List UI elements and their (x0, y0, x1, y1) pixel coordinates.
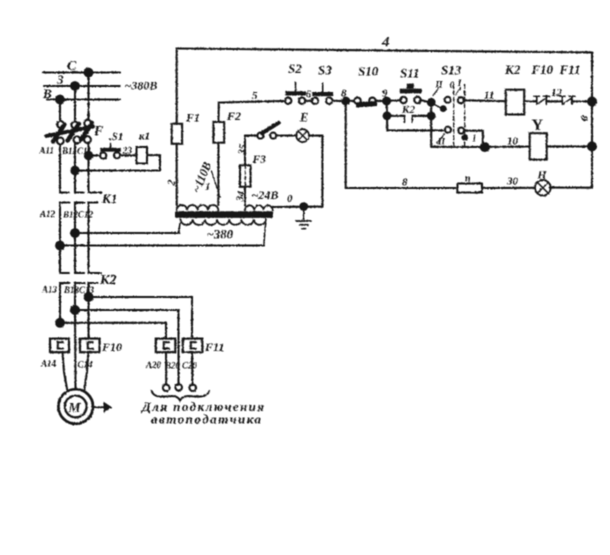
signal lamp E (296, 129, 309, 142)
svg-text:К2: К2 (401, 104, 415, 116)
node S13 row1 left (427, 98, 436, 107)
selector switch S13 vertical link (430, 102, 432, 147)
circuit breaker F pole B bottom contact (74, 136, 81, 143)
pushbutton S1 left terminal (100, 153, 106, 159)
wire 110V winding left lead up to F1 (176, 144, 178, 205)
node A feeder branch (55, 318, 65, 328)
svg-text:34: 34 (235, 190, 248, 203)
svg-text:10: 10 (507, 136, 519, 148)
wire A drop to breaker (59, 100, 61, 122)
node K1 return on B (70, 166, 79, 175)
node C to S1 branch (84, 151, 93, 160)
svg-text:Е: Е (299, 111, 308, 125)
svg-text:.S1: .S1 (109, 131, 123, 143)
knife switch left terminal (257, 133, 263, 139)
svg-text:9: 9 (382, 88, 388, 100)
wire K2 coil to F10 contact (524, 100, 536, 102)
thermal contact F10 (536, 97, 538, 105)
svg-text:~380В: ~380В (125, 79, 158, 93)
leader tick under I (456, 88, 461, 96)
leader tick under P (433, 87, 440, 96)
wire node C to S1 (89, 154, 101, 156)
brace under terminals (152, 391, 210, 401)
wire F11 C to terminal (191, 352, 194, 384)
phase rail B (44, 85, 120, 87)
wire 24V right lead to node 0 (273, 206, 304, 208)
svg-text:Y: Y (532, 117, 544, 134)
svg-text:А20: А20 (145, 360, 162, 370)
svg-text:Н: Н (537, 170, 548, 182)
node 24V zero terminal (299, 202, 308, 211)
transformer 380V primary winding (181, 219, 266, 225)
wire C down to F10 (87, 297, 89, 338)
svg-text:В12: В12 (62, 210, 79, 220)
node right bus lower (587, 141, 597, 151)
svg-text:0: 0 (450, 80, 455, 90)
circuit breaker F pole A bottom contact (57, 138, 64, 145)
node B feeder branch (70, 305, 80, 315)
wire S10 to node 9 (376, 100, 384, 102)
pushbutton S2 left terminal (285, 98, 291, 104)
node transformer feed on B (70, 228, 80, 238)
wire A breaker to K1 (59, 144, 61, 192)
circuit breaker F pole C top contact (84, 120, 91, 127)
svg-text:F10: F10 (101, 340, 122, 354)
wire 24V left lead up to F3 (244, 187, 246, 206)
wire C between K1 and K2 (87, 233, 89, 273)
wire B node to transformer primary left (75, 232, 179, 234)
motor M outer circle (58, 389, 93, 424)
svg-text:I: I (457, 78, 462, 88)
circuit breaker F pole A top contact (57, 121, 64, 128)
svg-text:А11: А11 (39, 146, 55, 156)
circuit breaker F blade pole C (81, 123, 92, 140)
contactor coil K2 (506, 90, 524, 115)
transformer 110V secondary winding (177, 205, 219, 210)
feeder terminal B (175, 384, 182, 391)
circuit breaker F pole C bottom contact (84, 136, 91, 143)
svg-text:S2: S2 (288, 61, 302, 76)
svg-text:в: в (575, 113, 591, 123)
pushbutton S1 right terminal (114, 152, 120, 158)
pushbutton S3 stem (322, 83, 324, 92)
S13 row2 moving contact (461, 134, 468, 141)
svg-text:А13: А13 (41, 285, 58, 295)
electromagnet coil Y (530, 133, 547, 159)
signal lamp H (535, 180, 551, 196)
wire primary right lead (264, 223, 266, 246)
wire F10 C to motor (84, 352, 88, 391)
svg-text:0: 0 (287, 193, 293, 205)
S13 row2 fixed contact b (458, 128, 464, 134)
wire C branch to F11 (89, 297, 193, 338)
thermal relay F11 heater pole C (183, 339, 203, 353)
thermal relay F10 heater pole C (80, 339, 100, 353)
wire S13 row2 to node 10 (464, 131, 483, 147)
wire A between nodes (59, 233, 61, 273)
node K2 branch left (383, 111, 392, 120)
wire node 8 to S10 (346, 100, 355, 102)
wire F3 up to switch, label 35 (rotated) (244, 136, 246, 166)
wire switch to lamp E (276, 135, 296, 137)
svg-text:В: В (42, 86, 52, 101)
svg-text:S10: S10 (358, 64, 379, 79)
wire Y coil to right bus (547, 145, 592, 147)
wire between thermal contacts, label 12 (546, 100, 562, 102)
wire B breaker to K1 (74, 143, 76, 192)
wire F11 contact to right bus (572, 100, 592, 102)
pushbutton S11 left terminal (400, 97, 406, 103)
node 8 (341, 97, 350, 106)
svg-text:4: 4 (381, 35, 390, 51)
S13 row1 fixed contact b (458, 97, 464, 103)
svg-text:~24В: ~24В (252, 188, 279, 202)
wire to knife switch (245, 135, 258, 137)
svg-text:8: 8 (341, 88, 347, 100)
node tap C (84, 68, 94, 78)
wire A branch to F11 (60, 323, 166, 338)
svg-text:к1: к1 (139, 131, 150, 143)
svg-text:К2: К2 (504, 62, 521, 77)
svg-text:В13: В13 (63, 285, 80, 295)
selector switch S13 position guide I (453, 85, 455, 147)
pushbutton S11 bridge bar (400, 89, 422, 94)
transformer core bar (175, 211, 273, 218)
contactor K2 main contact pole A (60, 272, 69, 274)
svg-text:I: I (472, 134, 477, 144)
pushbutton S3 bridge bar (312, 92, 333, 96)
fuse F2 (213, 122, 224, 143)
relay coil K1 (137, 147, 148, 164)
ground symbol (303, 207, 305, 221)
wire 110V winding right lead up to F2 (217, 143, 219, 205)
wire B between nodes (74, 233, 76, 273)
svg-text:F: F (93, 124, 104, 139)
svg-text:А14: А14 (40, 359, 57, 369)
svg-text:C: C (67, 59, 77, 74)
wire F11 A to terminal (165, 352, 167, 384)
wire 10 from node to Y coil (485, 145, 530, 148)
circuit breaker F pole B top contact (71, 122, 78, 129)
motor M inner circle (65, 396, 87, 418)
svg-text:С14: С14 (78, 360, 94, 370)
node K2 branch right (427, 111, 436, 120)
svg-text:F1: F1 (185, 111, 200, 125)
svg-text:М: М (68, 400, 82, 415)
svg-text:F2: F2 (226, 109, 241, 123)
knife switch blade (262, 123, 279, 133)
S13 row2 fixed contact a (445, 127, 451, 133)
svg-text:35: 35 (237, 143, 250, 156)
node right bus upper (587, 97, 597, 107)
svg-text:С12: С12 (78, 210, 94, 220)
pushbutton S11 knob (407, 84, 414, 89)
thermal relay F10 heater pole A (50, 339, 69, 353)
feeder terminal A (163, 385, 170, 392)
circuit breaker F blade pole A (53, 125, 65, 142)
circuit breaker F blade pole B (68, 124, 80, 141)
node transformer feed on A (55, 241, 65, 251)
pushbutton S1 stem (110, 144, 112, 148)
svg-text:К1: К1 (101, 191, 117, 206)
wire S1 to K1 coil, label 23 (120, 154, 137, 156)
svg-text:S3: S3 (318, 63, 332, 78)
feeder terminal C (190, 385, 197, 392)
contactor K1 main contact pole C (89, 191, 102, 193)
knife switch right terminal (270, 133, 276, 139)
svg-text:12: 12 (551, 87, 563, 99)
svg-text:~380: ~380 (207, 228, 234, 242)
svg-text:5: 5 (252, 90, 258, 102)
svg-text:30: 30 (506, 176, 519, 188)
wire K1 coil return to phase B (75, 155, 160, 170)
svg-text:С20: С20 (182, 361, 198, 371)
wire C drop to breaker (87, 73, 89, 121)
svg-text:З: З (56, 72, 64, 87)
thermal contact F11 (561, 97, 563, 105)
wire F2 up and right (wire 5) (219, 101, 286, 122)
S13 row1 fixed contact a (445, 97, 451, 103)
contact K2 auxiliary (self-hold) (387, 115, 405, 117)
wire F10 A to motor (63, 352, 68, 391)
svg-text:К2: К2 (99, 273, 117, 288)
S13 row1 moving contact (440, 105, 447, 112)
transformer 24V secondary winding (245, 205, 273, 210)
svg-text:F3: F3 (252, 154, 267, 166)
svg-text:11: 11 (484, 90, 494, 102)
selector switch S13 position guide II (464, 85, 466, 147)
svg-text:S13: S13 (441, 63, 462, 78)
node tap A (55, 95, 65, 105)
phase rail A (47, 98, 120, 100)
wire node to lamp loop right (304, 206, 323, 208)
wire S2 to S3, label 6 (305, 100, 312, 102)
svg-text:23: 23 (122, 147, 133, 157)
wire F1 up to top bus (176, 49, 178, 124)
pushbutton S10 bridge bar (356, 101, 377, 107)
wire resistor to lamp H, label 30 (482, 187, 535, 189)
pushbutton S10 right terminal (369, 98, 375, 104)
top bus wire 4 (177, 49, 592, 53)
wire lamp E to loop right side (309, 136, 322, 207)
svg-text:F10: F10 (531, 62, 554, 77)
svg-text:S11: S11 (400, 66, 420, 81)
wire node 8 down to bottom bus (345, 101, 347, 188)
node wire 10 (480, 142, 490, 152)
pushbutton S2 stem (295, 83, 297, 92)
pushbutton S10 left terminal (354, 98, 360, 104)
wire node 9 to S11 (387, 99, 401, 102)
pushbutton S1 bridge bar (100, 148, 121, 152)
svg-text:п: п (465, 174, 471, 185)
wire lamp H to right bus corner (550, 187, 592, 189)
contactor K2 main contact pole B (75, 272, 84, 274)
wire S3 to node 8 (332, 100, 343, 102)
wire S13 bottom link (431, 146, 485, 148)
fuse F3 (240, 165, 251, 187)
svg-text:8: 8 (402, 177, 408, 189)
contactor K1 main contact pole A (60, 191, 69, 193)
node C feeder branch (84, 292, 94, 302)
wire S13 row1 to K2 coil, label 11 (464, 99, 506, 102)
pushbutton S2 right terminal (299, 98, 305, 104)
wire C breaker to K1 (87, 143, 89, 193)
node 9 (382, 97, 391, 106)
thermal relay F11 heater pole A (156, 339, 176, 353)
svg-text:F11: F11 (204, 340, 224, 354)
wire A node to transformer primary right (60, 244, 264, 246)
contactor K1 main contact pole B (75, 191, 84, 193)
pushbutton S3 left terminal (312, 98, 318, 104)
svg-text:А12: А12 (39, 209, 56, 219)
motor shaft arrow (94, 406, 107, 408)
phase rail C (43, 71, 120, 73)
circuit breaker F mechanical tie bar (47, 127, 94, 137)
node tap B (70, 81, 80, 91)
svg-text:1: 1 (205, 181, 211, 193)
svg-text:F11: F11 (559, 62, 581, 77)
wire S11 to node 11a (421, 100, 429, 102)
wire primary left lead (179, 222, 181, 233)
right bus vertical (591, 52, 593, 187)
contactor K2 main contact pole C (89, 272, 102, 274)
svg-text:автоподатчика: автоподатчика (151, 412, 262, 427)
resistor R (458, 184, 483, 193)
pushbutton S3 right terminal (326, 98, 332, 104)
wire node 9 branch down to S13 row2 (387, 116, 443, 131)
fuse F1 (172, 124, 182, 144)
wire B down to motor (74, 310, 77, 389)
pushbutton S11 right terminal (414, 97, 420, 103)
bottom bus wire, label 8 (346, 187, 456, 189)
wire B drop to breaker (74, 86, 76, 121)
svg-text:6: 6 (306, 90, 311, 101)
pushbutton S2 bridge bar (285, 91, 306, 95)
wire B branch to feeder terminal (75, 310, 179, 385)
wire node 9 down to K2 branch (386, 101, 388, 116)
